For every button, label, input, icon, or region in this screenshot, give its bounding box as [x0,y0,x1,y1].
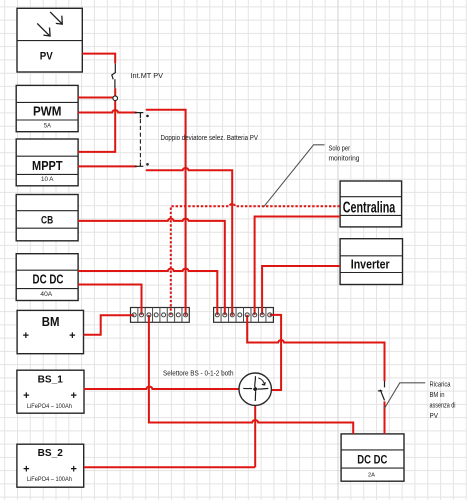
svg-text:MPPT: MPPT [32,158,63,173]
wire DC DC 40A output 1 to TB2 pole 1 (hops) [78,269,217,315]
deviator S2 pole 2 open throw dot [146,163,149,166]
wire BS_2 output [84,466,256,468]
converter box DC DC 40A [16,254,78,301]
battery box BS_2 [17,444,84,487]
svg-text:Int.MT PV: Int.MT PV [131,73,164,80]
svg-text:+: + [23,330,29,342]
svg-text:+: + [23,463,29,475]
svg-text:40A: 40A [40,291,53,298]
PV module box PV [17,8,82,72]
deviator S2 pole 1 open throw dot [146,115,149,118]
leader line: Solo per monitoring annotation [263,145,324,207]
svg-text:PWM: PWM [33,104,61,119]
wire TB2 pole 8 to selector right terminal [270,315,282,390]
inverter box Inverter [340,239,402,285]
wire deviator pole2 throw to TB2 pole 3 (hop over bus) [147,168,233,315]
svg-text:LiFePO4 – 100Ah: LiFePO4 – 100Ah [27,403,72,410]
svg-text:CB: CB [41,214,53,226]
svg-text:DC DC: DC DC [33,271,64,286]
svg-text:Inverter: Inverter [351,257,390,272]
wire node A to PWM input [78,97,113,99]
PV sunlight arrow 1 [50,12,62,24]
battery box BS_1 [17,370,84,413]
svg-text:Selettore BS - 0-1-2 both: Selettore BS - 0-1-2 both [163,370,234,377]
converter box DC DC 2A [341,434,404,481]
svg-text:BM in: BM in [430,392,445,399]
rotary selector SW3 rotation arrow [258,378,265,385]
wire CB output to TB2 pole 2 (hops over dashed net and bus) [78,219,225,315]
svg-text:+: + [69,330,75,342]
wire dashed monitoring net: TB1 pole6 to Centralina [171,204,340,315]
terminal block TB2 pole circles [215,313,271,317]
svg-text:2A: 2A [368,472,375,478]
terminal block TB1 (left, 8 poles) [131,308,190,323]
control unit box Centralina [340,181,402,227]
rotary selector SW3 body (Selettore BS) [239,373,271,405]
svg-text:+: + [70,463,76,475]
svg-text:+: + [23,390,29,402]
deviator S2 mechanical link (dashed) [139,119,141,162]
terminal block TB2 (right, 8 poles) [214,308,274,323]
wire PWM output to deviator pole 1 (hop over PV riser) [78,110,137,112]
wire BS_1 to selector left terminal (junction bump) [84,387,240,389]
svg-text:10 A: 10 A [41,176,54,183]
svg-text:Centralina: Centralina [343,200,396,217]
charge controller box PWM [16,85,78,131]
rotary selector SW3 cross contacts [243,376,268,401]
svg-text:Solo per: Solo per [329,145,351,152]
svg-text:5A: 5A [44,123,52,130]
wire PV output to disconnect switch [82,54,115,64]
terminal block TB1 pole circles [132,313,187,317]
wire BM to TB1 pole 1 [84,315,135,335]
wire TB2 pole 6 to Centralina [255,217,341,315]
PV sunlight arrow 2 [37,23,50,36]
svg-text:assenza di: assenza di [430,402,456,409]
svg-text:BS_2: BS_2 [38,448,64,459]
switch S4 charge switch (Ricarica BM) [378,381,385,400]
battery monitor box BM [17,310,83,353]
svg-text:LiFePO4 – 100Ah: LiFePO4 – 100Ah [27,476,72,483]
charge controller box MPPT [16,139,78,186]
switch S1 Int.MT PV (PV disconnect) [112,64,116,89]
svg-text:PV: PV [40,51,53,63]
wire node A down to MPPT input [78,101,115,152]
wire MPPT output to deviator pole 2 [78,165,137,167]
svg-text:Doppio deviatore selez. Batter: Doppio deviatore selez. Batteria PV [161,135,259,142]
wire TB1 pole 3 down to battery common rail to DC DC 2A [149,315,353,434]
wire deviator pole1 throw to battery bus down to TB1 pole 8 [147,110,186,315]
svg-text:monitoring: monitoring [329,156,360,163]
wire TB2 pole 5 to DC DC 2A via charge switch (hop at selector riser) [247,315,384,381]
deviator S2 pole 2 fixed contact [135,162,144,166]
wire disconnect to node A [114,88,116,96]
svg-text:DC DC: DC DC [357,454,387,467]
circuit breaker box CB [16,195,78,241]
svg-text:Ricarica: Ricarica [430,381,451,388]
wire TB2 pole 7 to Inverter [262,266,340,315]
node A: PV/PWM/MPPT junction [113,96,118,101]
wire selector bottom terminal down to BS_2 rail [254,405,256,467]
svg-text:BM: BM [42,314,60,329]
svg-text:BS_1: BS_1 [38,374,64,385]
wire charge switch to DC DC 2A input [384,401,386,434]
deviator S2 pole 1 fixed contact [135,113,144,119]
wire DC DC 40A output 2 to TB1 pole 2 [78,285,141,315]
leader line: Ricarica BM annotation [384,383,425,409]
svg-text:PV: PV [430,413,439,420]
svg-text:+: + [70,390,76,402]
